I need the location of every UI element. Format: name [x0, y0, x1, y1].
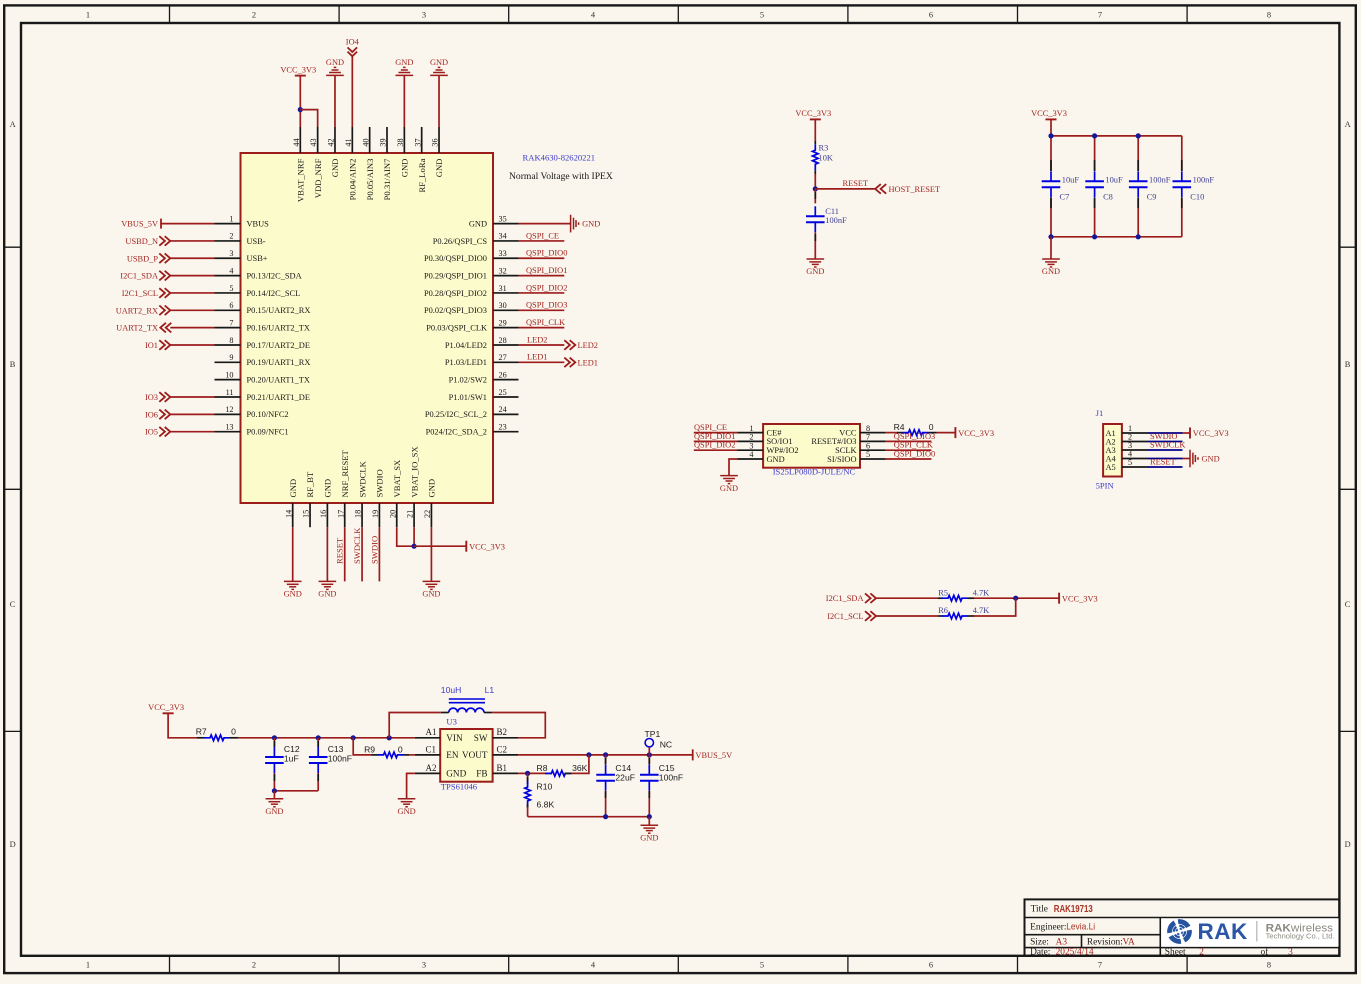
wire IO5 to pin 13	[170, 431, 214, 433]
svg-text:29: 29	[499, 318, 507, 327]
svg-text:SO/IO1: SO/IO1	[767, 437, 793, 446]
svg-text:4: 4	[749, 450, 753, 459]
J1 wire pin 5	[1148, 466, 1183, 468]
port VBUS_5V output	[693, 749, 732, 760]
svg-text:GND: GND	[430, 58, 448, 67]
svg-text:23: 23	[499, 422, 507, 431]
svg-text:35: 35	[499, 214, 507, 223]
ground output	[641, 825, 659, 833]
svg-text:P0.02/QSPI_DIO3: P0.02/QSPI_DIO3	[424, 306, 487, 315]
svg-text:A1: A1	[426, 727, 437, 737]
svg-text:P0.31/AIN7: P0.31/AIN7	[382, 158, 392, 200]
svg-text:FB: FB	[476, 769, 487, 779]
port IO4	[346, 38, 360, 57]
svg-text:0: 0	[398, 744, 403, 754]
J1 pin A1	[1106, 424, 1148, 438]
svg-text:A3: A3	[1056, 937, 1068, 947]
junction top rail C9	[1136, 133, 1141, 138]
pin 15 RF_BT	[302, 471, 316, 527]
junction bottom rail C8	[1092, 234, 1097, 239]
J1 wire pin 3	[1148, 449, 1183, 451]
svg-text:C13: C13	[328, 744, 344, 754]
svg-text:IO5: IO5	[145, 428, 158, 437]
junction RESET node	[813, 186, 818, 191]
wire R4 to VCC_3V3	[937, 432, 956, 434]
svg-text:IO4: IO4	[346, 38, 360, 47]
svg-text:B: B	[10, 360, 16, 369]
svg-text:8: 8	[1267, 11, 1271, 20]
wire L1 right to SW pin	[492, 713, 545, 738]
svg-text:Levia.Li: Levia.Li	[1066, 922, 1095, 933]
svg-text:NRF_RESET: NRF_RESET	[340, 449, 350, 497]
junction R10	[525, 771, 530, 776]
svg-text:30: 30	[499, 301, 507, 310]
net label QSPI_DIO0	[519, 249, 568, 259]
net label SWDIO wire	[369, 527, 379, 581]
pin 40 P0.05/AIN3	[361, 127, 375, 200]
svg-text:10uH: 10uH	[441, 685, 462, 695]
wire IO1 to pin 8	[170, 344, 214, 346]
svg-text:100nF: 100nF	[1149, 176, 1171, 185]
svg-text:VIN: VIN	[446, 733, 463, 743]
net label QSPI_DIO1	[519, 266, 568, 276]
pin 32 P0.29/QSPI_DIO1	[424, 266, 519, 280]
svg-text:P0.09/NFC1: P0.09/NFC1	[247, 428, 289, 437]
svg-text:VCC_3V3: VCC_3V3	[1031, 109, 1067, 118]
svg-text:Date:: Date:	[1030, 947, 1050, 957]
svg-text:3: 3	[229, 249, 233, 258]
junction R9 tap	[351, 735, 356, 740]
svg-text:18: 18	[354, 510, 363, 518]
svg-text:32: 32	[499, 266, 507, 275]
U3 pin B1 FB	[476, 763, 518, 779]
wire J1 pin1 to VCC	[1183, 432, 1191, 434]
pin 23 P024/I2C_SDA_2	[426, 422, 519, 436]
power VCC_3V3 at VBAT	[465, 541, 467, 552]
svg-text:6: 6	[866, 441, 870, 450]
port USBD_N	[125, 236, 170, 246]
port LED2	[564, 340, 598, 350]
port LED1	[564, 358, 598, 368]
svg-text:0: 0	[231, 726, 236, 736]
svg-text:5: 5	[760, 11, 764, 20]
svg-text:IO1: IO1	[145, 341, 158, 350]
junction bottom rail C9	[1136, 234, 1141, 239]
junction input gnd	[272, 788, 277, 793]
ground J1	[1190, 450, 1198, 468]
svg-text:3: 3	[1288, 947, 1293, 957]
svg-text:R4: R4	[894, 422, 905, 432]
pin 16 GND	[319, 479, 333, 527]
svg-text:VBUS_5V: VBUS_5V	[695, 751, 732, 760]
wire VCC down to rail	[168, 713, 197, 738]
svg-text:TP1: TP1	[645, 729, 661, 739]
J1 wire pin 4	[1148, 458, 1183, 460]
pin 36 GND	[431, 127, 445, 177]
svg-text:R8: R8	[537, 763, 548, 773]
svg-text:VBUS_5V: VBUS_5V	[121, 220, 158, 229]
capacitor C10 100nF	[1173, 136, 1215, 237]
resistor R6 4.7K	[938, 606, 989, 619]
svg-text:10uF: 10uF	[1062, 176, 1080, 185]
junction L1 tap	[387, 735, 392, 740]
junction VBAT	[411, 544, 416, 549]
svg-text:U3: U3	[446, 717, 457, 727]
svg-text:SW: SW	[474, 733, 488, 743]
J1 pin A4	[1106, 450, 1148, 464]
svg-text:P0.10/NFC2: P0.10/NFC2	[247, 410, 289, 419]
junction I2C pullup	[1013, 596, 1018, 601]
pin 12 P0.10/NFC2	[215, 405, 289, 419]
ground input caps	[266, 799, 284, 807]
pin 13 P0.09/NFC1	[215, 422, 289, 436]
svg-text:SI/SIOO: SI/SIOO	[827, 455, 856, 464]
svg-text:GND: GND	[446, 769, 466, 779]
svg-text:6: 6	[929, 11, 933, 20]
wire C11 to ground	[814, 232, 816, 259]
svg-text:C: C	[1345, 600, 1351, 609]
svg-text:LED2: LED2	[578, 341, 598, 350]
svg-text:Sheet: Sheet	[1165, 947, 1186, 957]
svg-text:C: C	[10, 600, 16, 609]
wire to output ground	[648, 817, 650, 826]
svg-text:7: 7	[866, 433, 870, 442]
svg-text:42: 42	[327, 138, 336, 146]
svg-text:IO3: IO3	[145, 393, 158, 402]
svg-text:QSPI_DIO0: QSPI_DIO0	[526, 249, 567, 258]
svg-text:RESET#/IO3: RESET#/IO3	[811, 437, 856, 446]
port I2C1_SCL	[122, 288, 171, 298]
U2 pin 2 SO/IO1	[738, 433, 793, 447]
junction C15 bottom	[647, 814, 652, 819]
wire net LED2	[519, 335, 565, 345]
ground above pin 38	[395, 58, 413, 75]
svg-text:5PIN: 5PIN	[1096, 481, 1115, 491]
wire IO3 to pin 11	[170, 396, 214, 398]
port IO3	[145, 392, 170, 402]
svg-text:NC: NC	[660, 740, 672, 750]
svg-text:GND: GND	[1042, 267, 1060, 276]
pin 26 P1.02/SW2	[449, 370, 519, 384]
wire to input ground	[273, 791, 275, 799]
svg-text:D: D	[10, 840, 16, 849]
svg-text:SWDIO: SWDIO	[369, 536, 379, 564]
pin 41 P0.04/AIN2	[344, 127, 358, 200]
svg-text:28: 28	[499, 336, 507, 345]
svg-text:USB-: USB-	[247, 237, 266, 246]
svg-text:QSPI_DIO2: QSPI_DIO2	[526, 283, 567, 292]
svg-text:GND: GND	[720, 484, 738, 493]
svg-text:P0.16/UART2_TX: P0.16/UART2_TX	[247, 324, 310, 333]
resistor R10 6.8K	[525, 773, 555, 809]
svg-text:GND: GND	[395, 58, 413, 67]
pin 34 P0.26/QSPI_CS	[433, 232, 519, 246]
svg-text:QSPI_CLK: QSPI_CLK	[526, 318, 565, 327]
svg-text:HOST_RESET: HOST_RESET	[889, 185, 941, 194]
wire VOUT rail	[518, 754, 693, 756]
pin 19 SWDIO	[371, 469, 385, 527]
net label QSPI_DIO0	[886, 449, 936, 459]
wire gnd to pin 38	[403, 75, 405, 127]
net label QSPI_DIO3	[519, 301, 568, 311]
svg-text:2: 2	[252, 11, 256, 20]
capacitor C15 100nF	[640, 755, 683, 817]
junction top rail C8	[1092, 133, 1097, 138]
svg-text:41: 41	[344, 138, 353, 146]
wire pin21 VBAT_IO_SX	[413, 527, 415, 546]
wire I2C1_SCL to R6	[876, 615, 938, 617]
net label RESET wire	[335, 527, 345, 581]
pin 43 VDD_NRF	[309, 127, 323, 198]
pin 33 P0.30/QSPI_DIO0	[424, 249, 519, 263]
svg-text:VCC_3V3: VCC_3V3	[469, 542, 505, 551]
pin 35 GND	[469, 214, 519, 228]
svg-text:4.7K: 4.7K	[973, 588, 990, 597]
svg-text:14: 14	[284, 510, 293, 518]
pin 14 GND	[284, 479, 298, 527]
svg-text:9: 9	[229, 353, 233, 362]
pin 9 P0.19/UART1_RX	[215, 353, 311, 367]
U3 pin B2 SW	[474, 727, 518, 743]
svg-text:5: 5	[866, 450, 870, 459]
svg-text:GND: GND	[806, 267, 824, 276]
svg-text:B: B	[1345, 360, 1351, 369]
svg-text:of: of	[1261, 946, 1270, 957]
wire output bottom rail	[528, 816, 650, 818]
ground C11	[807, 259, 825, 267]
IC U1 RAK4630 module body	[241, 153, 494, 503]
pin 1 VBUS	[215, 214, 270, 228]
wire R9 to EN pin	[409, 754, 415, 756]
connector J1 body	[1103, 424, 1122, 477]
ground cap bank	[1042, 259, 1060, 267]
wire UART2_RX to pin 6	[170, 309, 214, 311]
junction R8 feedback	[586, 752, 591, 757]
svg-text:SCLK: SCLK	[835, 446, 856, 455]
svg-text:QSPI_DIO0: QSPI_DIO0	[894, 449, 935, 458]
svg-text:P0.14/I2C_SCL: P0.14/I2C_SCL	[247, 289, 301, 298]
U2 pin 6 SCLK	[835, 441, 886, 455]
svg-text:R10: R10	[537, 782, 553, 792]
resistor R8 36K	[537, 763, 588, 776]
net label QSPI_CLK	[519, 318, 566, 328]
pin 3 USB+	[215, 249, 268, 263]
pin 42 GND	[327, 127, 341, 177]
svg-text:P1.04/LED2: P1.04/LED2	[445, 341, 487, 350]
svg-text:VBAT_SX: VBAT_SX	[392, 459, 402, 498]
svg-text:25: 25	[499, 388, 507, 397]
wire R3 to junction	[814, 174, 816, 189]
pin 11 P0.21/UART1_DE	[215, 388, 310, 402]
power VCC_3V3 at pullups	[1058, 593, 1060, 604]
svg-text:27: 27	[499, 353, 507, 362]
svg-text:LED1: LED1	[527, 353, 547, 362]
ground U2	[720, 476, 738, 484]
svg-text:A2: A2	[426, 763, 437, 773]
ground pin22	[423, 581, 441, 589]
svg-text:2025/4/14: 2025/4/14	[1056, 947, 1094, 957]
capacitor C11 100nF	[806, 206, 847, 232]
svg-text:17: 17	[336, 510, 345, 518]
wire bottom rail	[1051, 236, 1182, 238]
pin 7 P0.16/UART2_TX	[215, 318, 310, 332]
U2 pin 4 GND	[738, 450, 785, 464]
wire pin16 to ground	[326, 527, 328, 581]
svg-text:100nF: 100nF	[659, 772, 683, 782]
svg-text:USBD_P: USBD_P	[127, 254, 159, 263]
wire pin20 VBAT_SX	[397, 527, 414, 546]
power VCC_3V3 at J1	[1189, 428, 1191, 439]
svg-text:R9: R9	[364, 744, 375, 754]
wire VBUS_5V to pin1	[161, 223, 215, 225]
U3 pin A2 GND	[415, 763, 467, 779]
wire U2 pin4 to ground	[729, 459, 738, 476]
svg-text:C9: C9	[1147, 192, 1157, 201]
wire R8 to VOUT	[572, 755, 589, 774]
pin 22 GND	[423, 479, 437, 527]
IC U3 TPS61046 body	[440, 729, 492, 782]
svg-text:Revision:: Revision:	[1087, 937, 1123, 947]
svg-text:P0.04/AIN2: P0.04/AIN2	[348, 159, 358, 201]
svg-text:3: 3	[422, 961, 426, 970]
power VCC_3V3 at R3	[810, 118, 821, 120]
pin 31 P0.28/QSPI_DIO2	[424, 284, 519, 298]
wire R6 to junction	[974, 598, 1016, 616]
U2 pin 1 CE#	[738, 424, 783, 438]
svg-text:GND: GND	[288, 479, 298, 498]
svg-text:GND: GND	[434, 159, 444, 178]
svg-text:P1.01/SW1: P1.01/SW1	[449, 393, 487, 402]
svg-text:Normal Voltage with IPEX: Normal Voltage with IPEX	[509, 171, 613, 182]
svg-text:GND: GND	[398, 807, 416, 816]
wire I2C1_SDA to pin 4	[170, 275, 214, 277]
ground U3	[398, 799, 416, 807]
svg-text:I2C1_SCL: I2C1_SCL	[122, 289, 158, 298]
port I2C1_SDA	[826, 593, 876, 603]
svg-text:QSPI_CLK: QSPI_CLK	[894, 441, 933, 450]
svg-text:Title: Title	[1031, 905, 1048, 915]
port UART2_RX	[116, 306, 171, 316]
svg-text:10uF: 10uF	[1105, 176, 1123, 185]
svg-text:GND: GND	[400, 159, 410, 178]
wire FB to R8	[518, 772, 545, 774]
svg-text:7: 7	[1098, 11, 1102, 20]
wire IO4 to pin41	[351, 56, 353, 127]
svg-text:15: 15	[302, 510, 311, 518]
svg-text:100nF: 100nF	[1193, 176, 1215, 185]
net label QSPI_CLK	[886, 441, 933, 451]
svg-text:RF_LoRa: RF_LoRa	[417, 158, 427, 192]
svg-text:P0.30/QSPI_DIO0: P0.30/QSPI_DIO0	[424, 254, 487, 263]
svg-text:VCC_3V3: VCC_3V3	[280, 65, 316, 74]
port UART2_TX	[116, 323, 171, 333]
svg-text:11: 11	[226, 388, 234, 397]
wire top rail	[1051, 135, 1182, 137]
svg-text:10K: 10K	[819, 154, 833, 163]
wire VCC to R3	[814, 119, 816, 141]
svg-text:RESET: RESET	[335, 537, 345, 564]
svg-text:6: 6	[229, 301, 233, 310]
net label QSPI_DIO2	[694, 441, 738, 451]
svg-text:C8: C8	[1103, 192, 1113, 201]
pin 27 P1.03/LED1	[445, 353, 519, 367]
svg-text:EN: EN	[446, 750, 459, 760]
port IO5	[145, 427, 170, 437]
svg-text:P0.15/UART2_RX: P0.15/UART2_RX	[247, 306, 311, 315]
svg-text:C14: C14	[615, 763, 631, 773]
svg-text:P0.21/UART1_DE: P0.21/UART1_DE	[247, 393, 310, 402]
svg-text:19: 19	[371, 510, 380, 518]
svg-text:P0.25/I2C_SCL_2: P0.25/I2C_SCL_2	[425, 410, 487, 419]
capacitor C9 100nF	[1129, 136, 1171, 237]
J1 wire pin 1	[1148, 432, 1183, 434]
svg-text:A: A	[10, 120, 16, 129]
svg-text:VDD_NRF: VDD_NRF	[313, 158, 323, 198]
svg-text:QSPI_DIO2: QSPI_DIO2	[694, 441, 735, 450]
svg-text:SWDCLK: SWDCLK	[1150, 440, 1185, 449]
svg-text:VCC_3V3: VCC_3V3	[148, 703, 184, 712]
svg-text:2: 2	[229, 232, 233, 241]
svg-text:22uF: 22uF	[615, 772, 635, 782]
ground pin14	[284, 581, 302, 589]
U2 pin 8 VCC	[839, 424, 885, 438]
svg-text:VOUT: VOUT	[462, 750, 488, 760]
net label QSPI_DIO1	[694, 432, 738, 442]
svg-text:16: 16	[319, 510, 328, 518]
svg-text:P1.02/SW2: P1.02/SW2	[449, 376, 487, 385]
svg-text:1: 1	[229, 214, 233, 223]
svg-text:6.8K: 6.8K	[537, 800, 555, 810]
svg-text:R6: R6	[938, 606, 948, 615]
pin 17 NRF_RESET	[336, 449, 350, 527]
svg-text:P0.13/I2C_SDA: P0.13/I2C_SDA	[247, 272, 302, 281]
wire I2C1_SDA to R5	[876, 597, 938, 599]
pin 25 P1.01/SW1	[449, 388, 519, 402]
svg-text:GND: GND	[427, 479, 437, 498]
svg-text:GND: GND	[318, 590, 336, 599]
wire gnd to pin 36	[438, 75, 440, 127]
wire C13 bottom to C12 bottom	[274, 790, 318, 792]
port IO1	[145, 340, 170, 350]
IC U2 IS25LP080D flash body	[763, 424, 860, 468]
ground above pin 42	[326, 58, 344, 75]
svg-text:VCC_3V3: VCC_3V3	[958, 429, 994, 438]
wire UART2_TX to pin 7	[170, 327, 214, 329]
svg-text:34: 34	[499, 232, 507, 241]
svg-text:VA: VA	[1123, 937, 1136, 947]
pin 29 P0.03/QSPI_CLK	[426, 318, 518, 332]
pin 28 P1.04/LED2	[445, 336, 519, 350]
svg-text:20: 20	[388, 510, 397, 518]
wire USBD_P to pin 3	[170, 257, 214, 259]
svg-text:VBUS: VBUS	[247, 220, 270, 229]
svg-text:QSPI_DIO1: QSPI_DIO1	[526, 266, 567, 275]
svg-text:8: 8	[229, 336, 233, 345]
svg-text:RAK: RAK	[1198, 919, 1248, 944]
svg-text:10: 10	[225, 370, 233, 379]
ground pin35	[571, 215, 579, 233]
U3 pin A1 VIN	[415, 727, 463, 743]
svg-text:Engineer:: Engineer:	[1030, 922, 1066, 932]
wire pin35 to GND	[519, 223, 571, 225]
svg-text:R7: R7	[196, 726, 207, 736]
svg-text:USB+: USB+	[247, 254, 268, 263]
svg-text:0: 0	[929, 422, 934, 432]
svg-text:B1: B1	[497, 763, 508, 773]
wire I2C1_SCL to pin 5	[170, 292, 214, 294]
pin 44 VBAT_NRF	[292, 127, 306, 202]
capacitor C8 10uF	[1085, 136, 1123, 237]
